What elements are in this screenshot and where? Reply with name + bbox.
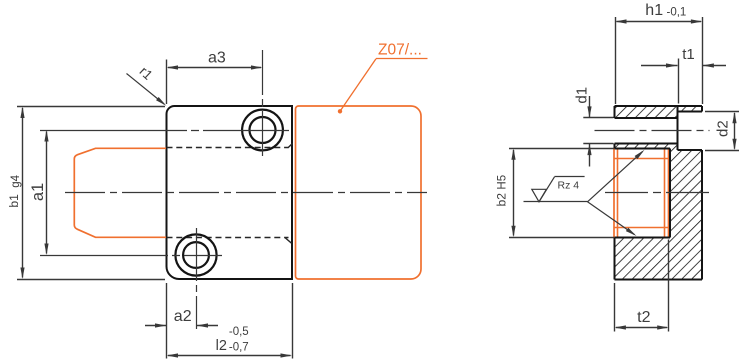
svg-text:a1: a1	[29, 183, 47, 201]
svg-text:-0,7: -0,7	[229, 341, 249, 353]
svg-text:t2: t2	[637, 309, 650, 326]
svg-text:t1: t1	[682, 46, 695, 63]
svg-text:Z07/...: Z07/...	[378, 42, 422, 59]
svg-text:d1: d1	[573, 87, 590, 104]
svg-text:a3: a3	[208, 49, 226, 66]
svg-text:b2 H5: b2 H5	[495, 175, 509, 207]
svg-text:Rz 4: Rz 4	[558, 179, 580, 191]
svg-text:d2: d2	[714, 120, 731, 137]
svg-text:-0,1: -0,1	[667, 6, 687, 18]
svg-text:a2: a2	[174, 308, 192, 325]
svg-text:b1 g4: b1 g4	[7, 174, 22, 207]
svg-text:h1: h1	[645, 2, 663, 19]
svg-text:-0,5: -0,5	[229, 326, 249, 338]
svg-text:l2: l2	[216, 338, 227, 354]
